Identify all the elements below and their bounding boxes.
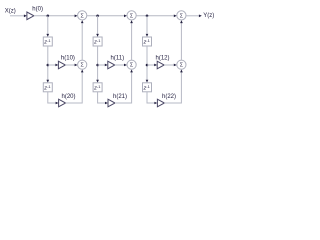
svg-text:h(22): h(22) — [162, 94, 176, 100]
svg-text:h(10): h(10) — [61, 56, 75, 62]
wire col3 junction to h(12) — [147, 64, 154, 66]
wire col1 lower delay to h(20) — [48, 92, 56, 103]
svg-text:h(11): h(11) — [111, 56, 125, 62]
wire col1 junction to h(10) — [48, 64, 56, 66]
delay z-1 lower col2 — [93, 83, 102, 92]
wire h(21) up to sum M2 — [115, 72, 132, 103]
wire S1 to S2 — [87, 15, 124, 17]
amplifier h(10) — [58, 61, 65, 69]
delay z-1 lower col3 — [143, 83, 152, 92]
amplifier h(20) — [59, 99, 66, 107]
junction dot col2 middle — [96, 64, 99, 67]
wire col3 delay to delay — [146, 46, 148, 80]
wire col2 top junction to delay — [97, 16, 99, 34]
wire col3 lower delay to h(22) — [147, 92, 155, 103]
svg-text:h(21): h(21) — [113, 94, 127, 100]
amplifier h(0) — [27, 12, 34, 20]
wire col2 delay to delay — [97, 46, 99, 80]
wire input to h(0) — [10, 15, 24, 17]
wire S3 to output — [186, 15, 199, 17]
summer S3 top — [177, 11, 186, 20]
junction dot col1 top — [47, 15, 50, 18]
amplifier h(12) — [157, 61, 164, 69]
summer M2 middle — [127, 60, 136, 69]
wire h(0) to sum S1 — [34, 15, 75, 17]
delay z-1 lower col1 — [43, 83, 52, 92]
wire col1 delay to delay — [47, 46, 49, 80]
summer M1 middle — [78, 60, 87, 69]
amplifier h(21) — [108, 99, 115, 107]
wire h(20) up to sum M1 — [66, 72, 83, 103]
wire S2 to S3 — [136, 15, 174, 17]
wire col1 top junction to delay — [47, 16, 49, 34]
junction dot col3 top — [146, 15, 149, 18]
svg-text:X(z): X(z) — [5, 9, 16, 15]
wire h(22) up to sum M3 — [164, 72, 181, 103]
wire h(12) to sum M3 — [164, 64, 174, 66]
delay z-1 upper col1 — [43, 37, 52, 46]
svg-text:h(20): h(20) — [62, 94, 76, 100]
junction dot col3 middle — [146, 64, 149, 67]
wire col2 lower delay to h(21) — [98, 92, 106, 103]
amplifier h(11) — [108, 61, 115, 69]
svg-text:Y(z): Y(z) — [203, 13, 214, 19]
delay z-1 upper col2 — [93, 37, 102, 46]
wire col3 top junction to delay — [146, 16, 148, 34]
wire h(11) to sum M2 — [115, 64, 124, 66]
summer S1 top — [78, 11, 87, 20]
delay z-1 upper col3 — [143, 37, 152, 46]
amplifier h(22) — [157, 99, 164, 107]
junction dot col1 middle — [47, 64, 50, 67]
wire sum M3 up to sum S3 — [180, 23, 182, 60]
summer M3 middle — [177, 60, 186, 69]
svg-text:h(12): h(12) — [156, 56, 170, 62]
wire col2 junction to h(11) — [98, 64, 105, 66]
wire h(10) to sum M1 — [65, 64, 74, 66]
summer S2 top — [127, 11, 136, 20]
wire sum M1 up to sum S1 — [81, 23, 83, 60]
wire sum M2 up to sum S2 — [131, 23, 133, 60]
junction dot col2 top — [96, 15, 99, 18]
svg-text:h(0): h(0) — [32, 6, 43, 12]
